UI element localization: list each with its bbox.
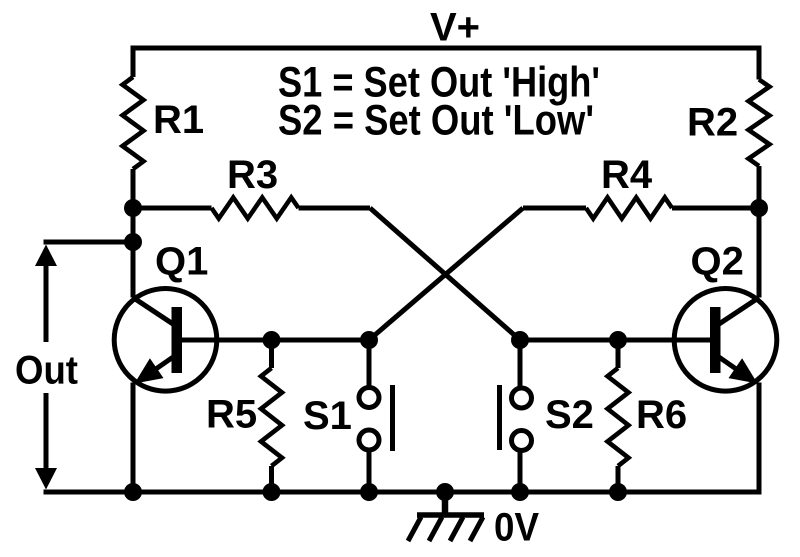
wire right vertical middle <box>757 166 762 298</box>
wire R6 top stub <box>616 340 621 368</box>
Out arrowhead up <box>35 245 57 267</box>
junction node R3/R1 <box>124 199 142 217</box>
wire R4 right <box>672 206 759 211</box>
transistor Q2 emitter arrowhead <box>729 358 758 383</box>
wire R5 bottom stub <box>269 466 274 492</box>
switch S1 upper contact circle <box>359 388 379 408</box>
resistor R1 <box>123 77 144 169</box>
transistor Q1 body circle <box>114 289 217 392</box>
wire S1 bottom stub <box>367 452 372 493</box>
resistor R5 <box>261 368 282 466</box>
ground hatch 1 <box>408 517 421 541</box>
wire S2 top stub <box>518 340 523 387</box>
svg-text:S1: S1 <box>303 394 352 438</box>
transistor Q1 emitter lead <box>140 355 176 380</box>
switch S1 actuator bar <box>390 385 395 451</box>
junction node R6 top <box>609 331 627 349</box>
junction node ground tap <box>436 483 454 501</box>
switch S2 upper contact circle <box>512 388 532 408</box>
wire cross diagonal left-to-right <box>370 208 520 340</box>
svg-text:R5: R5 <box>206 393 257 437</box>
wire Out shaft lower <box>44 393 49 474</box>
resistor R2 <box>749 80 770 167</box>
transistor Q1 base bar <box>172 307 183 373</box>
transistor Q1 collector lead <box>133 298 176 327</box>
svg-text:Q1: Q1 <box>155 240 208 284</box>
ground stub <box>442 492 449 515</box>
wire S1 top stub <box>367 340 372 386</box>
ground hatch 3 <box>450 517 463 541</box>
svg-text:R3: R3 <box>227 153 278 197</box>
junction node R5 bottom <box>263 483 281 501</box>
svg-text:S2: S2 <box>545 393 594 437</box>
transistor Q2 base bar <box>710 307 721 373</box>
junction node S2 top / Q2 base <box>511 331 529 349</box>
junction node R6 bottom <box>609 483 627 501</box>
wire left vertical middle <box>131 169 136 298</box>
junction node Out tap <box>124 233 142 251</box>
svg-text:R6: R6 <box>636 393 687 437</box>
switch S2 lower contact circle <box>512 431 532 451</box>
wire bottom rail 0V <box>44 490 762 495</box>
svg-text:0V: 0V <box>494 506 539 550</box>
svg-text:R4: R4 <box>601 153 653 197</box>
wire right vertical stub top <box>757 46 762 80</box>
wire S2 bottom stub <box>518 452 523 492</box>
wire Out shaft upper <box>44 260 49 342</box>
junction node R4/R2 <box>750 199 768 217</box>
junction node bottom rail / Q1 emitter <box>124 483 142 501</box>
svg-text:Q2: Q2 <box>691 240 744 284</box>
wire Q2 base <box>520 338 712 343</box>
wire right vertical lower <box>757 383 762 495</box>
transistor Q1 emitter arrowhead <box>135 358 164 383</box>
svg-text:Out: Out <box>15 349 78 393</box>
switch S1 lower contact circle <box>359 430 379 450</box>
svg-text:S2 = Set Out 'Low': S2 = Set Out 'Low' <box>278 97 594 145</box>
transistor Q2 collector lead <box>716 298 759 327</box>
transistor Q2 emitter lead <box>716 355 752 380</box>
ground bar <box>417 512 484 518</box>
junction node S1 bottom <box>360 483 378 501</box>
switch S2 actuator bar <box>497 385 502 450</box>
transistor Q2 body circle <box>674 289 777 392</box>
ground hatch 4 <box>470 517 483 541</box>
resistor R6 <box>608 368 629 466</box>
wire top rail V+ <box>131 46 762 51</box>
Out arrowhead down <box>35 468 57 490</box>
wire R6 bottom stub <box>616 466 621 492</box>
svg-text:V+: V+ <box>430 6 480 50</box>
wire R3 right <box>299 206 371 211</box>
wire left vertical lower <box>131 383 136 495</box>
junction node S2 bottom <box>511 483 529 501</box>
wire R4 left <box>523 206 586 211</box>
wire Out top horizontal <box>44 240 134 245</box>
wire R5 top stub <box>269 340 274 368</box>
resistor R4 <box>586 198 672 219</box>
junction node S1 top / Q1 base <box>360 331 378 349</box>
ground hatch 2 <box>429 517 442 541</box>
svg-text:R2: R2 <box>687 101 738 145</box>
resistor R3 <box>212 198 299 219</box>
wire Q1 base <box>182 338 369 343</box>
wire R3 left <box>133 206 212 211</box>
svg-text:R1: R1 <box>153 98 204 142</box>
wire left vertical stub top <box>131 46 136 78</box>
junction node R5 top <box>263 331 281 349</box>
wire cross diagonal right-to-left <box>369 208 523 340</box>
